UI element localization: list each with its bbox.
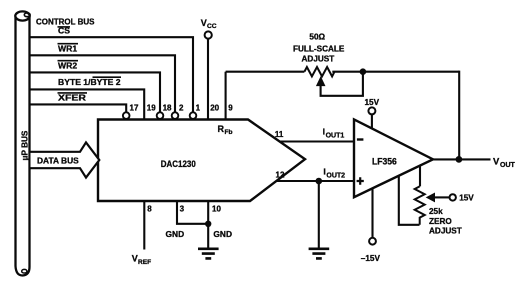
pin circle 18 [157,112,164,119]
ground symbol right [309,249,330,259]
svg-text:15V: 15V [365,98,380,107]
svg-text:CC: CC [207,23,217,30]
label VREF [132,254,151,266]
wire WR2 line to pin 18 [31,72,161,112]
label WR2 with overline [58,60,79,70]
svg-text:20: 20 [210,104,219,113]
svg-text:GND: GND [166,229,185,239]
svg-text:V: V [201,18,207,28]
pin circle 1 [190,112,197,119]
label XFER with overline [58,93,88,103]
wire pin 11 to op-amp minus input [279,140,354,142]
label VOUT [493,155,516,168]
svg-text:BYTE 1/BYTE 2: BYTE 1/BYTE 2 [58,77,121,87]
plus sign [357,177,364,184]
terminal circle 15V zero adjust [450,194,456,200]
svg-text:ADJUST: ADJUST [302,55,335,64]
ground symbol left [198,249,219,259]
svg-text:2: 2 [179,104,184,113]
svg-text:FULL-SCALE: FULL-SCALE [293,45,345,54]
svg-text:R: R [218,124,225,134]
label RFb [218,124,233,136]
junction dot pins 3/10 [205,221,211,227]
svg-text:OUT1: OUT1 [326,132,345,139]
wire pin 8 to Vref [143,201,145,250]
wiper arm of 50 ohm pot [317,72,363,96]
wire pin 12 to op-amp plus input [277,180,354,182]
label BYTE 1/BYTE 2 with overline on BYTE 2 [58,77,121,87]
label IOUT1 [323,126,345,139]
svg-text:9: 9 [228,104,233,113]
svg-text:19: 19 [147,104,156,113]
svg-text:OUT2: OUT2 [326,172,345,179]
wire balance pin left [399,176,420,225]
wire XFER line to pin 17 [31,104,127,112]
svg-text:Fb: Fb [225,129,233,136]
svg-text:15V: 15V [459,194,474,203]
wiper arrow of 25k pot [427,193,450,201]
wire CS line to pin 1 [31,37,194,112]
svg-text:1: 1 [196,104,201,113]
label CS with overline [58,26,71,36]
svg-text:–15V: –15V [361,254,381,263]
terminal circle VCC [205,31,212,38]
text labels [21,17,121,166]
svg-text:WR2: WR2 [58,60,77,70]
svg-text:V: V [132,254,138,264]
svg-text:3: 3 [180,205,185,214]
wire +15V supply [371,115,373,129]
minus sign [357,138,364,140]
pin circle 2 [172,112,179,119]
DAC1230 body [98,120,305,202]
wire plus input to ground [318,181,320,248]
svg-text:50Ω: 50Ω [309,33,325,42]
svg-text:GND: GND [213,229,232,239]
junction dot output node [456,156,463,163]
wire WR1 line to pin 2 [31,55,176,112]
wire pin 10 to gnd [207,201,209,248]
terminal circle -15V [369,238,376,245]
wire pin 3 to gnd [177,201,208,224]
svg-text:μP BUS: μP BUS [21,130,30,160]
svg-text:25k: 25k [429,207,443,216]
label WR1 with overline [58,43,79,53]
wire -15V supply [371,189,373,238]
wire BYTE1/BYTE2 line to pin 19 [31,89,145,119]
svg-text:DATA BUS: DATA BUS [37,156,79,166]
svg-text:11: 11 [275,130,284,139]
wire feedback top line [226,71,460,73]
svg-text:10: 10 [212,205,221,214]
resistor 25k zero adjust [415,186,425,224]
svg-text:ZERO: ZERO [429,217,452,226]
resistor 50 ohm full-scale adjust [304,67,334,76]
uP bus bar [15,11,30,275]
terminal circle +15V [368,107,375,114]
wire pin 9 riser to feedback line [225,72,227,120]
svg-text:LF356: LF356 [372,157,397,167]
wire feedback riser to output node [458,71,460,160]
svg-text:V: V [493,155,500,166]
svg-text:DAC1230: DAC1230 [161,159,196,169]
svg-text:12: 12 [276,171,285,180]
wire balance pin right [419,166,421,187]
junction dot feedback/wiper [360,68,367,75]
op-amp U1 LF356 [354,119,433,197]
pin circle 17 [123,112,130,119]
data bus arrow [31,142,100,177]
label IOUT2 [323,166,345,179]
svg-text:XFER: XFER [58,93,87,103]
svg-text:ADJUST: ADJUST [429,227,462,236]
junction dot iout2 node [316,178,323,185]
svg-text:18: 18 [163,104,172,113]
svg-text:WR1: WR1 [58,43,77,53]
svg-text:8: 8 [147,205,152,214]
svg-text:REF: REF [138,259,151,266]
svg-text:OUT: OUT [500,162,516,169]
wire VCC to pin 20 [207,39,209,120]
label VCC [201,18,217,30]
svg-text:17: 17 [130,104,139,113]
wire op-amp output to Vout [433,158,491,160]
